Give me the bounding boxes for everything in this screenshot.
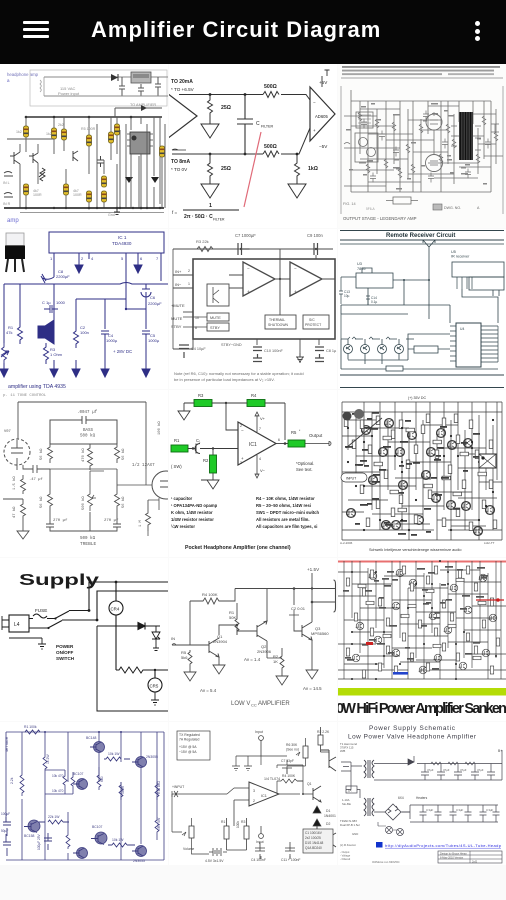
diode blob 1 (125, 177, 133, 183)
svg-text:500 kΩ: 500 kΩ (80, 536, 96, 541)
capacitor C9 (138, 84, 144, 96)
svg-text:2.2k: 2.2k (10, 777, 14, 784)
transistor Q8 (392, 649, 400, 657)
transistor Q3 (392, 602, 400, 610)
svg-text:TO 8mA: TO 8mA (171, 159, 190, 165)
svg-text:Pocket Headphone Amplifier (on: Pocket Headphone Amplifier (one channel) (185, 545, 291, 551)
bottom wire (173, 339, 319, 357)
transistor T6 (378, 448, 387, 457)
svg-text:Input: Input (255, 730, 263, 734)
svg-text:FUSE: FUSE (35, 608, 47, 613)
svg-text:Heaters: Heaters (416, 796, 428, 800)
svg-text:10µ: 10µ (344, 294, 350, 298)
svg-text:100k: 100k (236, 821, 240, 828)
svg-text:TO 20mA: TO 20mA (171, 79, 193, 85)
ground 1 (184, 672, 196, 681)
svg-text:.0047 µf: .0047 µf (77, 410, 98, 415)
svg-text:A-2-2006: A-2-2006 (340, 541, 353, 545)
resistor R1 (224, 826, 229, 839)
ground symbol (296, 353, 304, 362)
tube V1 (426, 114, 442, 130)
svg-text:10k 470: 10k 470 (52, 774, 64, 778)
svg-text:K ohm, 1/4W resistor: K ohm, 1/4W resistor (171, 510, 213, 515)
diode D5 (374, 756, 414, 765)
transistor T18 (479, 456, 488, 465)
pin 7 (160, 253, 162, 281)
speaker connector (479, 454, 496, 468)
wire: ground rail lower (20, 212, 164, 214)
svg-text:R2: R2 (203, 458, 209, 463)
wire: ground bus (341, 296, 450, 314)
svg-text:270 µf: 270 µf (53, 518, 68, 523)
wire: top rail (6, 731, 164, 733)
svg-text:2: 2 (81, 256, 84, 261)
capacitor C8 (41, 274, 54, 283)
wire: left vertical (4, 284, 20, 343)
junction dots top (240, 248, 242, 250)
svg-text:+: + (294, 289, 297, 294)
diode D1 (111, 74, 118, 81)
transistor Q3 (302, 622, 312, 640)
transistor Q9 (434, 654, 442, 662)
pin 5 (125, 253, 127, 309)
svg-text:R1: R1 (221, 820, 225, 824)
resistor 47k left (21, 499, 26, 522)
resistor right tall (155, 782, 159, 800)
svg-text:4: 4 (91, 256, 94, 261)
title (91, 17, 381, 43)
value labels (345, 412, 495, 536)
tube V7 (dashed) (4, 439, 30, 465)
component bottom (386, 366, 403, 371)
svg-text:CR4: CR4 (111, 607, 120, 612)
svg-text:680: 680 (100, 776, 104, 782)
svg-text:(See no): (See no) (286, 748, 299, 752)
right edge transistor top (321, 750, 336, 771)
svg-text:Q1A BD240: Q1A BD240 (305, 846, 322, 850)
svg-text:C11 + 100nF: C11 + 100nF (281, 858, 300, 862)
battery symbol bottom-left (209, 848, 227, 856)
red wire accent (476, 599, 504, 601)
capacitor C8 (119, 77, 125, 96)
svg-text:−: − (294, 266, 297, 271)
IC right pins (481, 326, 498, 362)
ground arrows (0, 369, 8, 377)
svg-text:R4: R4 (251, 393, 257, 398)
output transformer (451, 112, 481, 160)
wire: horizontals (344, 101, 503, 192)
transistor T22 (421, 471, 430, 480)
tube V8 (partial at edge) (152, 471, 180, 499)
capacitor C8 (315, 347, 324, 358)
svg-text:See text.: See text. (296, 467, 313, 472)
svg-text:headphone amp: headphone amp (7, 72, 39, 77)
svg-text:C4 10µF: C4 10µF (191, 347, 206, 351)
transistor Q4 (356, 622, 364, 630)
main IC U4 (456, 323, 481, 367)
pin 3 (88, 253, 90, 259)
svg-text:http://diyAudioProjects.com/Tu: http://diyAudioProjects.com/Tubes/4S-UL-… (385, 843, 502, 848)
svg-text:C7 1000µF: C7 1000µF (235, 233, 256, 238)
transistor Q18 (489, 614, 497, 622)
wire: top rail (179, 95, 310, 101)
svg-text:+5V: +5V (319, 80, 328, 85)
svg-text:D1: D1 (326, 809, 330, 813)
svg-text:Note (ref R6, C10): normally n: Note (ref R6, C10): normally not necessa… (174, 371, 304, 376)
app bar (0, 0, 506, 64)
terminal mid (259, 834, 264, 839)
transistor T13 (391, 521, 400, 530)
svg-text:56 kΩ: 56 kΩ (39, 496, 44, 508)
svg-text:DWG. NO.: DWG. NO. (444, 206, 461, 210)
wire: top rail (173, 248, 333, 250)
svg-text:+INPUT: +INPUT (172, 785, 184, 789)
svg-text:be in presence of particular l: be in presence of particular load impeda… (174, 377, 275, 382)
svg-text:All capacitors are film types,: All capacitors are film types, si (256, 524, 317, 529)
svg-text:47µF: 47µF (477, 768, 484, 772)
svg-text:47µF: 47µF (460, 768, 467, 772)
svg-text:1 Ohm: 1 Ohm (50, 352, 63, 357)
wire: right border (501, 402, 503, 540)
resistor top-left (horizontal) (25, 730, 40, 734)
IC left pins (450, 326, 456, 361)
DAC output triangle (partial) (163, 90, 197, 142)
svg-text:2: 2 (253, 799, 255, 803)
capacitor .47 µf (23, 465, 50, 473)
pot 500k center (88, 471, 97, 511)
svg-text:100µF 25V: 100µF 25V (37, 833, 41, 850)
pin 2 ground (78, 253, 80, 265)
transistor Q4 (28, 820, 40, 832)
ground top left (178, 403, 190, 420)
capacitor C10 (155, 77, 161, 96)
ground stub (9, 638, 46, 649)
svg-text:* TO +6.5V: * TO +6.5V (171, 87, 195, 92)
svg-text:IN R: IN R (3, 202, 11, 206)
svg-text:Av = 1.4: Av = 1.4 (244, 657, 261, 662)
capacitor C1 (188, 444, 238, 454)
svg-text:1000µ: 1000µ (106, 338, 118, 343)
wire: neutral rail (97, 591, 168, 620)
plug L4 (9, 615, 29, 632)
svg-text:( SW): ( SW) (171, 464, 182, 469)
capacitor mid (44, 833, 52, 850)
svg-text:AMPLIFIER: AMPLIFIER (258, 701, 290, 707)
svg-text:470 kΩ: 470 kΩ (81, 448, 86, 462)
regulator U2 (131, 72, 151, 83)
wire: verticals (351, 90, 496, 192)
transistor T1 (384, 419, 393, 428)
svg-text:C10 100nF: C10 100nF (264, 349, 283, 353)
transistor Q7 (482, 649, 490, 657)
svg-text:TDA4930: TDA4930 (112, 241, 132, 246)
wire to right tube (117, 469, 152, 485)
resistor R2 (52, 128, 57, 139)
transistor T21 (485, 506, 494, 515)
output battery bracket (312, 580, 336, 612)
svg-text:IC 1: IC 1 (118, 235, 127, 240)
svg-text:U4: U4 (460, 327, 464, 331)
wire: left border (341, 402, 343, 540)
svg-text:1k2: 1k2 (16, 130, 22, 134)
capacitor C4 (255, 842, 265, 859)
svg-text:FILTER: FILTER (261, 125, 274, 129)
transistor Q14 (444, 626, 452, 634)
capacitor C7 (238, 243, 250, 255)
svg-text:amp: amp (7, 218, 19, 224)
svg-text:6-May-2010 Version: 6-May-2010 Version (440, 856, 464, 860)
resistor 1k (295, 154, 300, 178)
svg-text:U3: U3 (357, 262, 362, 266)
svg-text:10k 470: 10k 470 (52, 789, 64, 793)
svg-text:1: 1 (209, 203, 212, 209)
svg-text:22k 1W: 22k 1W (48, 815, 60, 819)
resistor R1 (18, 323, 23, 344)
ground rail mid (374, 779, 502, 781)
svg-text:1: 1 (188, 282, 190, 286)
svg-text:2π · 50Ω · C: 2π · 50Ω · C (184, 214, 213, 220)
resistor 25ohm upper (208, 95, 213, 117)
IR receiver module (452, 262, 504, 277)
svg-text:R3 22k: R3 22k (196, 239, 209, 244)
resistor R mid right (97, 767, 101, 790)
resistor R6 (115, 124, 120, 135)
resistor horizontal low (39, 820, 69, 824)
svg-text:−5V: −5V (319, 144, 328, 149)
svg-text:100R: 100R (33, 193, 42, 197)
wire: lower drops (26, 154, 154, 208)
svg-text:3: 3 (253, 789, 255, 793)
svg-text:47k: 47k (6, 330, 12, 335)
wire: rails (338, 670, 506, 679)
ground symbol (114, 208, 120, 215)
resistor horizontal mid (104, 757, 130, 761)
svg-text:R4 100K: R4 100K (202, 592, 218, 597)
wire Q2 (237, 589, 267, 659)
filter capacitor 4 (471, 764, 479, 781)
wire: down main (97, 626, 168, 711)
power amp triangle 1 (243, 262, 275, 296)
resistor R (116, 667, 155, 673)
transistor T10 (461, 502, 470, 511)
ground lower right (288, 178, 306, 198)
transformer T2 (364, 798, 374, 816)
svg-text:3.3µF: 3.3µF (456, 808, 463, 812)
svg-text:U5: U5 (451, 250, 456, 254)
svg-text:Design by Bruce Heran: Design by Bruce Heran (440, 852, 467, 856)
op-amp U4 (249, 782, 279, 806)
capacitor left 2 (3, 834, 11, 856)
svg-text:¼W resistor: ¼W resistor (171, 524, 195, 529)
wire: main top rail (25, 116, 162, 118)
svg-text:+15V @ 5A: +15V @ 5A (179, 745, 197, 749)
svg-text:*: * (299, 429, 301, 433)
svg-text:IN L: IN L (3, 181, 10, 185)
svg-text:10k 1W: 10k 1W (108, 752, 120, 756)
svg-text:POWER: POWER (56, 644, 74, 649)
svg-text:−: − (313, 100, 316, 105)
wire: B+ rail (417, 750, 502, 780)
tone network top line (50, 443, 117, 445)
svg-text:IC1: IC1 (261, 794, 267, 798)
svg-text:560R: 560R (121, 785, 125, 794)
svg-text:47µF: 47µF (427, 768, 434, 772)
svg-text:1kΩ: 1kΩ (308, 166, 318, 172)
svg-text:R5: R5 (291, 430, 297, 435)
switch blade 2 (29, 620, 97, 628)
svg-text:2x2 100/25: 2x2 100/25 (305, 836, 321, 840)
lamp CR5 (148, 678, 162, 692)
wire: mid horizontal (4, 283, 168, 285)
resistor 56k right lower (115, 469, 120, 511)
resistor R9 (87, 191, 92, 202)
switch blade 1 (55, 611, 89, 619)
legend box (433, 204, 442, 210)
wire: lower rail (342, 529, 502, 531)
svg-text:FILTER: FILTER (213, 218, 225, 222)
svg-text:C 1µ: C 1µ (42, 300, 51, 305)
transistor Q3 (73, 151, 78, 161)
svg-text:S/C: S/C (309, 318, 315, 322)
header text lines (342, 66, 500, 68)
svg-text:10k 1W: 10k 1W (112, 838, 124, 842)
svg-text:D1S 1N4148: D1S 1N4148 (305, 841, 323, 845)
svg-text:INPUT: INPUT (346, 477, 356, 481)
resistor R12 (160, 146, 165, 157)
svg-text:C8 1µ: C8 1µ (326, 349, 337, 353)
svg-text:2200µF: 2200µF (148, 301, 162, 306)
svg-text:500Ω: 500Ω (264, 84, 277, 90)
heater caps row (420, 805, 500, 822)
svg-text:R3: R3 (198, 393, 204, 398)
svg-text:D2: D2 (326, 822, 330, 826)
transistor T11 (414, 516, 423, 525)
svg-text:f =: f = (172, 210, 178, 215)
wire: top rail (235, 573, 332, 589)
spec box (177, 731, 210, 760)
svg-text:500Ω: 500Ω (264, 144, 277, 150)
capacitor left 1 (3, 817, 11, 836)
wire: top rail (18, 402, 146, 469)
thermal shutdown block (265, 315, 296, 329)
capacitor C11 (285, 842, 295, 859)
resistor vertical low (119, 782, 123, 800)
svg-text:Av = 14.5: Av = 14.5 (303, 686, 322, 691)
svg-text:2200µF: 2200µF (56, 274, 70, 279)
wire: horizontals (338, 570, 506, 664)
svg-text:7A Regulated: 7A Regulated (179, 738, 199, 742)
svg-text:Lt22-TT: Lt22-TT (484, 541, 495, 545)
zener CR6 (152, 626, 160, 651)
svg-text:W/B: W/B (340, 749, 345, 753)
svg-text:Power input: Power input (58, 91, 80, 96)
svg-text:1K: 1K (273, 659, 278, 664)
svg-text:R1: R1 (174, 438, 180, 443)
volume pot (189, 826, 194, 838)
internal wires (229, 249, 335, 315)
svg-text:THERMAL: THERMAL (269, 318, 285, 322)
svg-text:5: 5 (121, 256, 124, 261)
resistor 25ohm lower (208, 154, 213, 178)
svg-text:6X4: 6X4 (398, 796, 404, 800)
lamp CR4 (109, 601, 123, 615)
svg-text:Power Supply Schematic: Power Supply Schematic (369, 725, 456, 732)
link icon (376, 842, 383, 848)
resistor R10 (102, 176, 107, 187)
wire: lower rail (172, 128, 310, 154)
left rail (172, 249, 174, 349)
filter capacitor 2 (437, 764, 445, 781)
ground 4 (306, 670, 318, 679)
svg-text:0W HiFi Power Amplifier Sanken: 0W HiFi Power Amplifier Sanken (338, 701, 506, 717)
capacitor C6 (141, 284, 151, 307)
transistor Q2 (29, 153, 38, 163)
svg-text:(+) 35V DC: (+) 35V DC (408, 396, 426, 400)
wire: verticals (6, 732, 164, 860)
transistor T5 (426, 448, 435, 457)
left border (340, 86, 342, 214)
svg-text:3: 3 (240, 461, 242, 465)
pin 6 ground (137, 253, 139, 265)
bridge rectifier (385, 804, 401, 820)
hamburger menu icon (23, 21, 49, 38)
resistor 56k left upper (48, 444, 53, 463)
svg-text:BASS: BASS (83, 429, 94, 433)
svg-text:0R5 5W: 0R5 5W (157, 817, 161, 830)
wire: supply bottom rail (44, 95, 168, 97)
transistor Q5 (95, 832, 107, 844)
svg-text:OUTPUT STAGE - LEGENDARY AMP: OUTPUT STAGE - LEGENDARY AMP (343, 216, 417, 221)
wire right (155, 670, 168, 678)
resistor R3 (244, 826, 249, 839)
wire: vertical drops (26, 117, 160, 204)
svg-text:C4 100nF: C4 100nF (251, 858, 266, 862)
red label (366, 642, 373, 645)
resistors (vertical) (344, 414, 497, 531)
svg-text:Oil/Motor-run 630VDC: Oil/Motor-run 630VDC (372, 860, 400, 864)
svg-text:+: + (313, 128, 316, 133)
filter capacitor 3 (454, 764, 462, 781)
resistors (358, 112, 498, 178)
antenna (423, 240, 435, 259)
svg-text:2N3055: 2N3055 (146, 755, 158, 759)
svg-text:STBY−GND: STBY−GND (221, 343, 242, 347)
diode blob 2 (151, 177, 159, 183)
wire: mid connections (26, 135, 117, 174)
wire: verticals (344, 561, 501, 679)
transistor Q1 (344, 345, 353, 354)
svg-text:- Output: - Output (340, 850, 350, 854)
svg-text:TREBLE: TREBLE (80, 541, 97, 547)
bottom rule 2 (340, 387, 504, 389)
svg-text:LOW V: LOW V (231, 701, 250, 707)
filter capacitor 5 (487, 764, 495, 781)
svg-text:50µF: 50µF (1, 829, 8, 833)
svg-text:2of2: 2of2 (472, 860, 478, 864)
red annotation line (244, 132, 261, 207)
svg-text:−: − (247, 266, 250, 271)
svg-text:1/4W resistor resistor: 1/4W resistor resistor (171, 517, 214, 522)
svg-text:- Filtered: - Filtered (340, 857, 351, 861)
overflow menu icon (475, 21, 480, 44)
op-amp AD605 (310, 87, 335, 141)
ground (17, 522, 29, 539)
svg-text:.47 µf: .47 µf (29, 477, 43, 482)
svg-text:2: 2 (188, 269, 190, 273)
title rule top (340, 230, 504, 232)
wire: right verticals (97, 124, 165, 208)
pot VR1 (1, 343, 9, 364)
